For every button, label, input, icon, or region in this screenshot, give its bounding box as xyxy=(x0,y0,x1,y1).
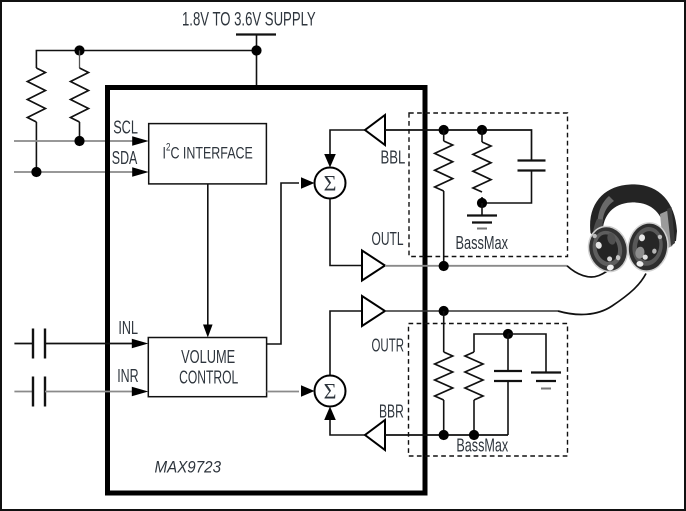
wire R5 bottom to BBR xyxy=(443,400,445,435)
block I2C INTERFACE xyxy=(149,124,267,184)
amplifier A3 OUTR (right-pointing) xyxy=(362,296,385,326)
junction supply node xyxy=(251,45,261,55)
wire BBR net xyxy=(385,434,508,436)
right yoke xyxy=(660,210,673,250)
summer left channel (sigma) xyxy=(315,168,346,199)
svg-text:BBR: BBR xyxy=(379,402,404,422)
junction R6 / C4 top xyxy=(503,329,513,339)
amplifier A2 OUTL (right-pointing) xyxy=(362,251,385,281)
arrow into right summer bottom xyxy=(324,407,336,421)
wire R2 top stub xyxy=(79,51,81,69)
IC U1 MAX9723 outline xyxy=(108,88,426,494)
junction R3 top on BBL xyxy=(439,125,449,135)
wire BBL amp to left summer xyxy=(330,130,365,156)
junction OUTL / R3 xyxy=(439,261,449,271)
headphones xyxy=(583,184,677,276)
resistor R1 (SDA pull-up) xyxy=(27,68,45,122)
junction R4 top on BBL xyxy=(477,125,487,135)
wire supply vertical to IC xyxy=(256,35,258,87)
svg-text:SCL: SCL xyxy=(113,118,138,138)
svg-text:1.8V TO 3.6V SUPPLY: 1.8V TO 3.6V SUPPLY xyxy=(182,8,316,30)
junction R5 / BBR xyxy=(439,430,449,440)
svg-text:BassMax: BassMax xyxy=(456,435,508,455)
amplifier A4 BBR (left-pointing) xyxy=(365,420,385,450)
dashed box BassMax right channel xyxy=(409,324,568,457)
svg-text:CONTROL: CONTROL xyxy=(179,368,238,388)
svg-text:Σ: Σ xyxy=(324,171,337,196)
wire OUTL net xyxy=(385,265,567,267)
headband xyxy=(590,184,677,243)
summer right channel (sigma) xyxy=(315,376,346,407)
wire C4 top to ground G2 xyxy=(508,334,546,372)
arrow into left summer top xyxy=(324,154,336,168)
wire R1 bottom to SDA xyxy=(35,122,37,172)
capacitor C3 xyxy=(482,161,546,204)
svg-text:OUTL: OUTL xyxy=(372,229,404,249)
left earcup xyxy=(583,221,634,277)
wire INL xyxy=(45,343,134,345)
right earcup xyxy=(623,219,672,275)
resistor R4 xyxy=(473,130,491,203)
svg-text:INL: INL xyxy=(118,318,138,338)
junction R2 top xyxy=(74,45,84,55)
junction R4/C3 bottom xyxy=(477,198,487,208)
junction OUTR / R5 xyxy=(439,306,449,316)
pin arrow SCL into I2C xyxy=(132,136,149,145)
pin arrow SDA into I2C xyxy=(132,167,149,176)
svg-text:BBL: BBL xyxy=(381,148,406,168)
wire left summer to OUTL amp xyxy=(330,199,362,266)
junction SDA / R1 xyxy=(31,167,41,177)
wire SCL input xyxy=(14,140,134,142)
wire BBL net xyxy=(385,130,532,160)
arrow into volume control xyxy=(203,325,213,338)
junction SCL / R2 xyxy=(74,136,84,146)
svg-text:I2C INTERFACE: I2C INTERFACE xyxy=(163,142,253,163)
resistor R5 xyxy=(435,352,453,400)
svg-text:VOLUME: VOLUME xyxy=(181,347,235,367)
svg-text:OUTR: OUTR xyxy=(372,336,405,356)
wire SDA input xyxy=(14,171,134,173)
capacitor C1 (INL input) xyxy=(14,329,45,359)
wire R5 top to OUTR xyxy=(443,311,445,352)
junction R6 / BBR xyxy=(469,430,479,440)
wire BBR amp to right summer xyxy=(330,418,365,435)
amplifier A1 BBL (left-pointing) xyxy=(365,115,385,145)
pin arrow INL xyxy=(132,339,149,348)
left yoke xyxy=(593,219,604,243)
ground G1 xyxy=(467,203,497,229)
svg-text:INR: INR xyxy=(117,366,138,386)
svg-text:Σ: Σ xyxy=(324,379,337,404)
pin arrow INR xyxy=(132,387,149,396)
resistor R2 (SCL pull-up) xyxy=(71,68,89,122)
resistor R3 xyxy=(435,130,453,191)
wire lower summer to OUTR amp xyxy=(330,311,362,376)
wire R3 bottom to OUTL xyxy=(443,191,445,266)
arrow into right summer xyxy=(301,385,315,397)
svg-text:BassMax: BassMax xyxy=(456,233,509,253)
supply rail bar xyxy=(236,33,276,35)
wire OUTR curve to headphone right xyxy=(558,274,646,315)
wire R2 bottom to SCL xyxy=(79,122,81,141)
ground G2 xyxy=(531,373,561,389)
svg-text:MAX9723: MAX9723 xyxy=(155,458,222,477)
wire volume control to left summer xyxy=(267,183,299,344)
svg-text:SDA: SDA xyxy=(112,148,138,168)
capacitor C2 (INR input) xyxy=(14,377,45,407)
wire OUTR net xyxy=(385,310,558,312)
wire I2C to volume control xyxy=(207,184,209,326)
wire OUTL curve to headphone left xyxy=(567,266,613,277)
wire INR xyxy=(45,391,134,393)
arrow into left summer xyxy=(301,177,315,189)
wire volume control to right summer xyxy=(267,391,299,393)
dashed box BassMax left channel xyxy=(409,113,568,257)
capacitor C4 xyxy=(494,334,522,435)
wire pull-up rail xyxy=(36,51,256,69)
resistor R6 xyxy=(465,334,508,435)
block VOLUME CONTROL xyxy=(148,338,266,397)
